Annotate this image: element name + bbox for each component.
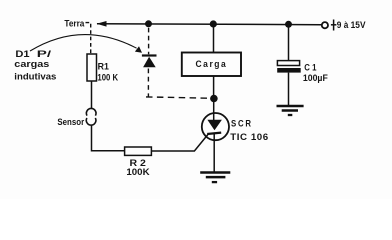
node junction anode <box>210 95 218 103</box>
resistor R1 <box>87 54 97 81</box>
svg-text:9 à 15V: 9 à 15V <box>337 20 366 30</box>
SCR Q1 <box>202 113 229 140</box>
node junction diode top <box>145 20 152 27</box>
ground SCR <box>200 173 230 183</box>
wire C1 top lead <box>288 24 290 61</box>
leader arrow to D1 <box>30 35 142 53</box>
label D1 note <box>14 49 56 82</box>
wire carga bottom to node <box>213 76 215 98</box>
wire C1 bottom lead <box>288 73 290 105</box>
label +9 a 15V <box>331 20 366 31</box>
wire carga top <box>213 24 215 53</box>
capacitor C1 <box>277 61 301 73</box>
wire R1 to sensor <box>91 81 93 109</box>
node arrow to Terra <box>97 21 107 27</box>
svg-text:C 1: C 1 <box>304 63 317 74</box>
svg-text:TIC 106: TIC 106 <box>230 132 268 142</box>
node junction C1 top <box>285 21 292 28</box>
diode D1 dashed branch lower <box>147 69 149 97</box>
terminal +9 a 15V <box>322 22 328 28</box>
svg-text:cargas: cargas <box>14 59 49 70</box>
svg-text:Terra: Terra <box>64 19 85 30</box>
wire dashed to anode node <box>146 97 210 98</box>
svg-text:Sensor: Sensor <box>57 117 84 128</box>
wire dashed Terra to R1 <box>86 23 91 54</box>
node junction carga top <box>210 20 217 27</box>
svg-text:100µF: 100µF <box>303 73 328 84</box>
svg-text:SCR: SCR <box>231 118 253 128</box>
wire SCR cathode down <box>213 133 215 172</box>
diode D1 dashed branch upper <box>148 28 150 54</box>
svg-text:100 K: 100 K <box>97 72 118 83</box>
svg-text:Carga: Carga <box>196 59 228 69</box>
diode D1 <box>142 56 157 68</box>
svg-text:100K: 100K <box>126 167 149 178</box>
resistor R2 <box>125 147 152 155</box>
ground C1 <box>277 106 304 115</box>
load box Carga <box>182 53 241 77</box>
wire node to SCR anode <box>213 98 215 121</box>
wire top rail <box>97 23 322 26</box>
wire R2 to gate <box>152 134 209 151</box>
svg-text:R1: R1 <box>98 62 110 73</box>
sensor contacts <box>86 108 96 125</box>
svg-text:indutivas: indutivas <box>14 72 56 83</box>
wire sensor to R2 <box>92 125 125 151</box>
